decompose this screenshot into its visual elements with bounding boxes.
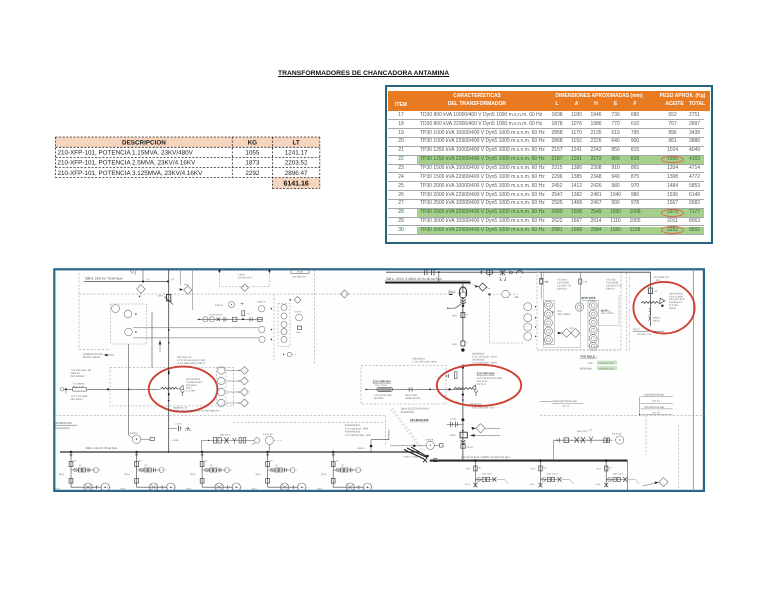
- dashed link vertical x489.4: [488, 294, 490, 343]
- svg-text:6141.16: 6141.16: [283, 180, 308, 187]
- feeder F5 motor circle 2: [363, 483, 371, 491]
- meter circle M1: [112, 305, 120, 313]
- svg-text:LT: LT: [292, 140, 299, 147]
- feeder F3 breaker box: [200, 462, 204, 467]
- transformer T2 coil: [454, 387, 472, 389]
- svg-text:(P): (P): [210, 464, 213, 467]
- svg-text:Z=5.75%: Z=5.75%: [669, 304, 678, 307]
- feeder F2 bottom wire: [137, 486, 167, 488]
- PT symbol oval with cross: [486, 270, 493, 274]
- CT circle A: [203, 317, 208, 322]
- left table vertical dashed lines: [55, 137, 57, 178]
- wire motor to rect: [434, 444, 439, 446]
- long wire to left meters y338: [133, 337, 259, 339]
- dark dashes on y294 left of breaker: [449, 293, 453, 295]
- svg-text:1241.17: 1241.17: [285, 150, 308, 157]
- metering dashed box left: [111, 304, 147, 344]
- dashed vertical right x646 lower: [645, 416, 647, 455]
- aux chain above bus2: [553, 439, 612, 441]
- feeder F4 branch rects: [275, 468, 278, 472]
- svg-text:300 A: 300 A: [321, 473, 327, 476]
- feeder G2 X bottom: [539, 483, 543, 488]
- feeder F3 junction cross: [227, 485, 229, 489]
- feeder G2 junction dot: [539, 459, 542, 462]
- svg-text:-4 A/2 AWG-GND (CON 2): -4 A/2 AWG-GND (CON 2): [177, 362, 205, 365]
- svg-text:(P): (P): [336, 460, 339, 463]
- feeder F2 branch circle2: [159, 468, 164, 473]
- svg-text:x-60M: x-60M: [172, 439, 178, 442]
- capacitor group G-E M wire: [447, 423, 463, 425]
- feeder F2 branch bars: [153, 468, 155, 473]
- stub below fuse F1: [540, 284, 542, 299]
- svg-text:Dyn5: Dyn5: [186, 387, 192, 390]
- aux chain Y symbol: [233, 438, 237, 444]
- feeder F3 vertical: [201, 452, 203, 487]
- relay circles column x527.8: [524, 303, 532, 311]
- breaker box on spare feeder: [648, 288, 652, 294]
- feeder F5 branch circle2: [356, 468, 361, 473]
- feeder F2 junction dot: [135, 451, 137, 453]
- aux small circle: [254, 438, 259, 443]
- inner right border line: [693, 269, 695, 491]
- drawout breaker on x168.7: [167, 295, 171, 302]
- capacitor bars: [177, 426, 179, 432]
- dark up arrows at 1kVA box corners: [218, 270, 221, 274]
- svg-text:(P): (P): [276, 464, 279, 467]
- svg-text:YES. 4/PDS: YES. 4/PDS: [601, 312, 614, 315]
- svg-text:900 A: 900 A: [252, 488, 258, 491]
- arrows below breaker: [500, 277, 505, 280]
- svg-text:2896.47: 2896.47: [285, 170, 308, 177]
- svg-text:938 A, 23.8 kV, 75 kA Sym: 938 A, 23.8 kV, 75 kA Sym: [85, 277, 123, 281]
- svg-text:SALA ELECTRICA Nº16: SALA ELECTRICA Nº16: [401, 408, 430, 411]
- feeder F4 branch bars: [284, 468, 286, 473]
- junction dots on left wire: [142, 280, 144, 282]
- feeder F1 branch bars: [87, 468, 89, 473]
- feeder G3 branch wire: [606, 478, 626, 480]
- text PLC left arrow: [553, 311, 554, 313]
- feeder F5 bottom wire: [333, 486, 363, 488]
- feeder F3 branch wire: [202, 469, 225, 471]
- svg-text:SFW 2000: SFW 2000: [581, 296, 596, 300]
- GRR dashed box: [361, 365, 446, 404]
- motor circle above bus1: [132, 435, 140, 443]
- svg-text:RUIDO VISUAL: RUIDO VISUAL: [83, 356, 101, 359]
- svg-text:PLBS: PLBS: [297, 270, 304, 273]
- transformer T1 wye symbol: [181, 391, 185, 396]
- svg-text:PSS: PSS: [569, 327, 574, 330]
- svg-text:300 A: 300 A: [255, 473, 261, 476]
- feeder G2 diag stub: [562, 479, 574, 484]
- svg-text:(P): (P): [341, 464, 344, 467]
- comm arrow: [104, 354, 108, 356]
- main vertical x462.9 below transformer: [462, 391, 464, 460]
- feeder G1 junction dot: [474, 459, 477, 462]
- chevrons left on top wire: [480, 271, 482, 274]
- main 23kV bus thick: [385, 282, 470, 284]
- aux chain above bus1: [202, 439, 255, 441]
- feeder G1 vertical: [474, 461, 476, 487]
- svg-text:4/50-720 V: 4/50-720 V: [577, 430, 589, 433]
- relay box column x592: [588, 301, 599, 348]
- svg-text:Dyn5/Dyn5 V: Dyn5/Dyn5 V: [669, 301, 683, 304]
- feeder G3 junction dot: [605, 459, 608, 462]
- GAH-1 box: [461, 445, 465, 449]
- feeder F1 branch circle2: [94, 468, 99, 473]
- feeder F2 ground ticks below bus: [135, 453, 138, 455]
- dark arrow into diamond pair: [558, 332, 562, 335]
- diamond pair lower: [562, 329, 571, 338]
- feeder G3 breaker box: [605, 466, 608, 471]
- svg-text:1873: 1873: [245, 160, 260, 167]
- aux circle above bus2: [616, 436, 624, 444]
- wire stub to motor circle: [129, 435, 132, 438]
- small circle at wire start: [60, 388, 63, 391]
- wire motor to rect: [141, 438, 150, 440]
- relay column dashed box x278: [278, 303, 290, 346]
- document title: [278, 70, 449, 78]
- feeder G3 diag stub: [627, 479, 639, 484]
- transformer T1 secondary arrow: [179, 385, 184, 389]
- svg-text:210-XFP-101, POTENCIA 3.125MVA: 210-XFP-101, POTENCIA 3.125MVA, 23KV/4.1…: [58, 170, 204, 177]
- aux dash stub: [610, 439, 616, 441]
- svg-text:YES. 4/MDS: YES. 4/MDS: [558, 313, 571, 316]
- aux bracket pair: [604, 438, 607, 443]
- fuse F2 top right: [579, 279, 582, 284]
- svg-text:6.6 kV: 6.6 kV: [185, 429, 192, 432]
- svg-text:SDA 4: SDA 4: [448, 290, 455, 293]
- meter circle M2: [124, 310, 132, 318]
- junction dot feeder: [461, 348, 464, 351]
- svg-text:6.6 kV: 6.6 kV: [176, 422, 183, 425]
- dark feeder hatch into bus2: [404, 447, 428, 459]
- svg-text:210-GRR-606: 210-GRR-606: [373, 379, 391, 383]
- horizontal boundary y415.7: [56, 415, 386, 417]
- dark arrow at diamond: [474, 285, 478, 288]
- feeder F1 junction cross: [96, 485, 98, 489]
- svg-text:2Y-AB: 2Y-AB: [601, 309, 608, 312]
- svg-text:DESCRIPCION: DESCRIPCION: [122, 140, 166, 147]
- SDA4 drawout breaker: [459, 287, 466, 298]
- feeder F5 motor circle 1: [346, 483, 354, 491]
- feeder F3 branch bars: [218, 468, 220, 473]
- svg-text:(1X1/S/INTE): (1X1/S/INTE): [54, 427, 70, 430]
- curve symbol lower: [648, 316, 649, 320]
- dark arrow above CAB2: [462, 430, 464, 432]
- svg-text:2292: 2292: [245, 170, 260, 177]
- SDA4 chevrons: [460, 300, 466, 305]
- svg-text:(P): (P): [145, 464, 148, 467]
- red highlight ellipse E1: [149, 367, 218, 412]
- svg-text:90 B: 90 B: [466, 468, 471, 471]
- relay box column x547: [543, 301, 554, 345]
- aux chain rect pair: [213, 438, 216, 444]
- diamond right of CAB2: [476, 424, 485, 433]
- relay circle TD: [259, 326, 265, 332]
- aux 80s symbol: [240, 302, 243, 305]
- feeder F3 branch circle2: [225, 468, 230, 473]
- fuse rect below 80s: [242, 311, 245, 316]
- feeder F5 breaker box: [331, 462, 335, 467]
- feeder F5 junction cross: [358, 485, 360, 489]
- transfer circle X right cluster: [296, 314, 303, 321]
- dashed boundary vertical x274: [273, 294, 275, 360]
- bus2 4.16kV thick horizontal: [430, 460, 628, 462]
- feeder F1 motor circle 2: [101, 483, 109, 491]
- svg-text:4-T/C 500 kcmil - TRIP: 4-T/C 500 kcmil - TRIP: [345, 427, 369, 430]
- svg-text:2008 A: 2008 A: [653, 316, 661, 319]
- feeder F3 motor circle 1: [215, 483, 223, 491]
- left table header fill: [56, 137, 320, 147]
- svg-text:X-/DE A: X-/DE A: [294, 311, 302, 314]
- PT diamond D2: [184, 286, 192, 294]
- svg-text:PLC: PLC: [558, 310, 563, 313]
- red highlight ellipse E3: [633, 282, 694, 334]
- wire into transformer T1: [64, 388, 160, 390]
- GRR wire horizontal: [365, 388, 463, 390]
- breaker XX stacked on top wire: [500, 270, 505, 275]
- SFW section dashed box: [537, 272, 621, 350]
- dashed boundary vertical x312: [313, 270, 315, 365]
- feeder F1 lower box: [69, 479, 73, 484]
- diamond bottom right: [659, 477, 668, 486]
- diagonal boundary double dash: [391, 409, 424, 452]
- diagram frame: [54, 269, 704, 491]
- feeder F3 lower box: [200, 479, 204, 484]
- arrow into SFW column: [602, 310, 604, 312]
- vertical x128.6 lower: [128, 344, 130, 435]
- feeder G3 branch circleX: [608, 478, 612, 482]
- bus1 4.16kV horizontal: [60, 451, 420, 453]
- svg-text:900 A: 900 A: [121, 488, 127, 491]
- sync check circle: [502, 290, 510, 298]
- capacitor stub horizontal: [169, 427, 177, 429]
- dashed box around ellipse1 cluster: [110, 367, 234, 406]
- feeder F5 branch circleX: [336, 468, 340, 472]
- X-400A motor circle left of bus2: [426, 441, 434, 449]
- svg-text:23 kV/120 V: 23 kV/120 V: [238, 277, 252, 280]
- feeder G2 vertical: [540, 461, 542, 487]
- arrow below D1: [139, 296, 141, 298]
- junction arrows on x168.7: [168, 342, 170, 344]
- svg-text:0-6.25 kV: 0-6.25 kV: [612, 433, 622, 436]
- breaker GAH3: [461, 313, 465, 318]
- GRR arrow left end: [366, 388, 368, 390]
- breaker GAH2: [461, 341, 465, 346]
- feeder G2 branch rects: [547, 477, 550, 481]
- aux rect above bus2: [564, 438, 569, 443]
- feeder F2 junction cross: [161, 485, 163, 489]
- fault diamond (2): [479, 283, 487, 291]
- svg-text:SFW 2000: SFW 2000: [580, 368, 592, 371]
- svg-text:43K013.4: 43K013.4: [557, 288, 568, 291]
- svg-text:210-MCM-608: 210-MCM-608: [410, 418, 429, 422]
- left table total cell fill: [272, 178, 319, 189]
- capacitor symbol inside E2: [445, 375, 447, 378]
- stub below wire start: [65, 389, 67, 394]
- svg-text:Z=5.75%: Z=5.75%: [186, 390, 195, 393]
- svg-text:MM: MM: [297, 331, 301, 334]
- feeder F4 junction cross: [292, 485, 294, 489]
- feeder F4 ground ticks below bus: [266, 453, 269, 455]
- long wire to left meters y328: [133, 327, 259, 329]
- svg-text:(P): (P): [205, 460, 208, 463]
- hash ticks top frame: [130, 269, 132, 273]
- svg-text:4/50-720 V: 4/50-720 V: [482, 472, 493, 475]
- feeder F2 vertical: [136, 452, 138, 487]
- svg-text:1055: 1055: [245, 150, 260, 157]
- svg-text:CTL 7B: CTL 7B: [652, 412, 660, 415]
- svg-text:1-T/C 250 kcmil - 38 kV: 1-T/C 250 kcmil - 38 kV: [412, 361, 437, 364]
- main 23kV vertical feeder x168.7 upper: [168, 269, 170, 366]
- PLBS box: [291, 269, 309, 274]
- feeder F3 junction dot: [201, 451, 203, 453]
- CT chain bars: [223, 317, 225, 322]
- CT chain horizontal y319: [197, 318, 263, 320]
- svg-text:3-1/C 500 kcmil - 8 kV: 3-1/C 500 kcmil - 8 kV: [471, 407, 495, 410]
- svg-text:2.5/3.13 MVA: 2.5/3.13 MVA: [669, 295, 683, 298]
- svg-text:900 A: 900 A: [186, 488, 192, 491]
- vertical x192 from top: [191, 269, 193, 310]
- stub below fuse F2: [579, 284, 581, 302]
- CT chain X: [217, 318, 220, 322]
- svg-text:Z 5.75 %: Z 5.75 %: [477, 383, 486, 386]
- wire right of CAB2 y435.4: [470, 434, 500, 436]
- feeder F2 motor circle 2: [167, 483, 175, 491]
- arc to fault diamond: [465, 284, 475, 287]
- feeder F3 branch circleX: [205, 468, 209, 472]
- CAB-2 chevrons: [461, 440, 466, 444]
- feeder G2 branch circleX: [542, 478, 546, 482]
- svg-text:210/SWR2040: 210/SWR2040: [598, 362, 614, 365]
- svg-text:210-MCM-107: 210-MCM-107: [54, 421, 72, 425]
- svg-text:1 A: 1 A: [247, 313, 251, 316]
- svg-text:210-XFP-101, POTENCIA 1.15MVA,: 210-XFP-101, POTENCIA 1.15MVA, 23KV/480V: [58, 150, 194, 157]
- feeder G1 breaker box: [474, 466, 477, 471]
- GRR junction ticks: [408, 387, 410, 391]
- feeder G1 diag stub: [496, 479, 508, 484]
- feeder F5 branch rects: [341, 468, 344, 472]
- svg-text:1-T/C 8F150 AWG - GND: 1-T/C 8F150 AWG - GND: [345, 434, 371, 437]
- junction dot GRR wire: [448, 388, 450, 390]
- feeder F2 lower box: [135, 479, 139, 484]
- CT chain rect2: [258, 317, 263, 321]
- transformer T1 coil: [161, 387, 178, 389]
- feeder F3 bottom wire: [202, 486, 232, 488]
- dark arrow and small diamond top right cluster: [290, 299, 292, 301]
- svg-text:CHANC400: CHANC400: [401, 411, 415, 414]
- svg-text:KG: KG: [248, 140, 258, 147]
- feeder F5 branch bars: [349, 468, 351, 473]
- feeder F2 branch rects: [144, 468, 147, 472]
- GS motor circle: [575, 303, 583, 311]
- aux chain bracket pair: [239, 438, 242, 444]
- winding arcs on vertical: [649, 308, 651, 314]
- svg-text:938 A, 23 kV, 3 3W/3, 60 Hz 60: 938 A, 23 kV, 3 3W/3, 60 Hz 60 kA Sym: [386, 277, 442, 281]
- feeder G2 breaker box: [539, 466, 542, 471]
- svg-text:(P): (P): [478, 467, 481, 470]
- svg-text:2.5/3.125 MVA (2P) (S/F): 2.5/3.125 MVA (2P) (S/F): [477, 377, 503, 380]
- L wire from FURNANCE area: [388, 430, 390, 441]
- svg-text:COM SPD/CPI-606: COM SPD/CPI-606: [644, 394, 665, 397]
- feeder G3 X bottom: [604, 483, 608, 488]
- feeder wire top right to spare transformer: [541, 271, 650, 273]
- HS fuse on x541: [540, 272, 542, 279]
- svg-text:(P): (P): [79, 464, 82, 467]
- svg-text:GAH/1 9W1: GAH/1 9W1: [405, 394, 418, 397]
- relay circle UL: [259, 336, 265, 342]
- feeder F1 junction dot: [70, 451, 72, 453]
- junction dot x462.9 y419.7: [461, 418, 464, 421]
- bracket at bus2 entry: [434, 459, 438, 462]
- relay function circles column: [281, 304, 287, 310]
- CT chain arrow left: [199, 318, 201, 320]
- wire into HORIZONTO label: [541, 401, 552, 403]
- svg-text:1.15 MVA (S/F): 1.15 MVA (S/F): [186, 381, 202, 384]
- CT chain junction: [242, 318, 244, 320]
- svg-text:CTL 11: CTL 11: [562, 405, 570, 408]
- dark arrow into br diamond: [655, 482, 659, 484]
- red highlight ellipse E2: [437, 365, 521, 406]
- svg-text:23/4.16/0.48 kV: 23/4.16/0.48 kV: [669, 298, 686, 301]
- dashed section boundary horizontal: [79, 293, 455, 295]
- spare transformer coil horizontal: [641, 301, 659, 303]
- svg-text:ASSBLAN 20K: ASSBLAN 20K: [405, 397, 421, 400]
- svg-text:4/50-720 V: 4/50-720 V: [613, 472, 624, 475]
- svg-text:(SIEMENS): (SIEMENS): [469, 403, 482, 406]
- svg-text:2-T/C 8/120 AWG: 2-T/C 8/120 AWG: [374, 394, 392, 397]
- svg-text:(P): (P): [270, 460, 273, 463]
- dashed boundary vertical x626 top right: [626, 269, 628, 352]
- feeder F1 branch rects: [78, 468, 81, 472]
- svg-text:(1): (1): [147, 278, 150, 281]
- CT chain rect: [233, 317, 237, 321]
- feeder F5 ground ticks below bus: [332, 453, 335, 455]
- svg-text:(P): (P): [74, 460, 77, 463]
- feeder G1 branch circleX: [477, 478, 481, 482]
- fuse rect on wire: [73, 388, 87, 392]
- feeder F4 motor circle 2: [298, 483, 306, 491]
- feeder F2 breaker box: [135, 462, 139, 467]
- svg-text:GAH: GAH: [452, 343, 457, 346]
- feeder F1 branch wire: [71, 469, 94, 471]
- capacitor arrow: [186, 427, 190, 430]
- feeder F2 branch circleX: [139, 468, 143, 472]
- fuse F1 top right: [540, 279, 543, 284]
- svg-text:4/50-720 V: 4/50-720 V: [547, 472, 558, 475]
- svg-text:(2P) XFU/102: (2P) XFU/102: [669, 293, 684, 296]
- svg-text:90 B: 90 B: [597, 468, 602, 471]
- svg-text:FURNANCE/S: FURNANCE/S: [345, 424, 360, 427]
- svg-text:(2): (2): [589, 429, 592, 432]
- feeder F1 ground ticks below bus: [69, 453, 72, 455]
- feeder F4 bottom wire: [268, 486, 298, 488]
- dashed horizontal right y415.7: [540, 415, 705, 417]
- svg-text:210-XFP-650: 210-XFP-650: [477, 371, 495, 375]
- svg-text:GAH-1: GAH-1: [467, 446, 474, 449]
- svg-text:90 B: 90 B: [531, 468, 536, 471]
- main vertical x168.7 through E1 to bus1: [168, 366, 170, 453]
- dark arrow into diamond: [471, 427, 476, 430]
- svg-text:OPT WINDM: OPT WINDM: [71, 375, 85, 378]
- feeder G2 X symbol: [558, 477, 562, 482]
- feeder F4 vertical: [267, 452, 269, 487]
- svg-text:43K01.4: 43K01.4: [606, 288, 616, 291]
- svg-text:X-400 A: X-400 A: [425, 439, 434, 442]
- feeder F3 ground ticks below bus: [201, 453, 204, 455]
- feeder F1 bottom wire: [71, 486, 101, 488]
- svg-text:210-URS-30: 210-URS-30: [292, 276, 306, 279]
